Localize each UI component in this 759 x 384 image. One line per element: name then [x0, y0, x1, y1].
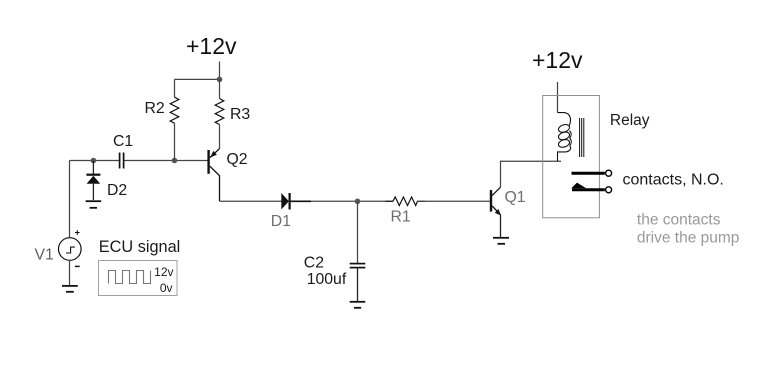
relay contact upper [572, 172, 605, 175]
wire R1 to Q1 base [418, 200, 490, 202]
svg-text:0v: 0v [160, 281, 173, 295]
wire R3 top lead [219, 79, 221, 98]
ground below D2 [86, 200, 102, 202]
node A junction dot D2 tap [91, 158, 97, 164]
svg-text:the contacts: the contacts [637, 212, 721, 229]
svg-text:ECU signal: ECU signal [99, 238, 180, 256]
transistor Q1 [491, 187, 501, 215]
node D junction dot C2 tap [355, 199, 361, 205]
svg-text:R3: R3 [230, 106, 250, 123]
ECU signal box [99, 261, 178, 296]
resistor R3 [215, 99, 224, 125]
wire C1 right to Q2 base [124, 160, 208, 162]
diode D1 [281, 193, 289, 210]
svg-text:C2: C2 [304, 255, 324, 272]
contact terminal circle upper [606, 170, 612, 176]
wire D1 to R1 [311, 200, 393, 202]
svg-text:Relay: Relay [610, 112, 650, 129]
svg-text:100uf: 100uf [307, 271, 347, 288]
svg-text:+12v: +12v [532, 47, 583, 73]
diode D2 [92, 161, 94, 176]
svg-text:C1: C1 [113, 133, 133, 150]
voltage source V1 [59, 238, 82, 261]
node B junction dot Q2 base / R2 [172, 158, 178, 164]
wire V1 riser [69, 161, 71, 238]
svg-text:V1: V1 [35, 247, 55, 264]
relay core lines [580, 118, 584, 157]
wire Q1 collector up and right to relay coil [501, 161, 562, 187]
wire rail2 Q2 collector to D1 [220, 200, 282, 202]
ground below Q1 [493, 237, 509, 239]
ground below V1 [62, 285, 78, 287]
svg-text:D1: D1 [271, 213, 291, 230]
relay box [543, 96, 600, 218]
wire +12v stem [219, 62, 221, 80]
ECU square wave [109, 271, 151, 284]
svg-text:12v: 12v [154, 265, 173, 279]
relay contact lower with wiper triangle [572, 188, 605, 191]
wire R2 bottom lead [174, 123, 176, 160]
wire input rail from V1 corner to C1 [70, 160, 120, 162]
wire top rail [175, 78, 220, 80]
capacitor C2 [350, 263, 366, 265]
resistor R2 [170, 97, 179, 123]
svg-text:Q1: Q1 [505, 189, 526, 206]
wire C2 branch [357, 201, 359, 263]
wire R3 bottom lead to Q2 emitter [219, 125, 221, 149]
svg-text:+12v: +12v [186, 33, 237, 59]
resistor R1 [386, 197, 426, 206]
svg-text:R2: R2 [145, 100, 165, 117]
wire V1 to ground [69, 260, 71, 285]
svg-text:contacts, N.O.: contacts, N.O. [623, 172, 724, 189]
relay coil L1 [557, 113, 571, 162]
svg-text:drive the pump: drive the pump [637, 229, 740, 246]
contact terminal circle lower [606, 187, 612, 193]
wire +12v right stem into relay [557, 82, 559, 113]
svg-text:Q2: Q2 [227, 151, 248, 168]
node C junction dot +12v rail [217, 77, 223, 83]
transistor Q2 [209, 149, 220, 202]
wire R2 top lead [174, 79, 176, 97]
wire Q1 emitter to ground [500, 215, 502, 237]
svg-text:D2: D2 [107, 182, 127, 199]
svg-text:R1: R1 [391, 209, 411, 226]
capacitor C1 [120, 153, 124, 169]
ground below C2 [350, 301, 366, 303]
